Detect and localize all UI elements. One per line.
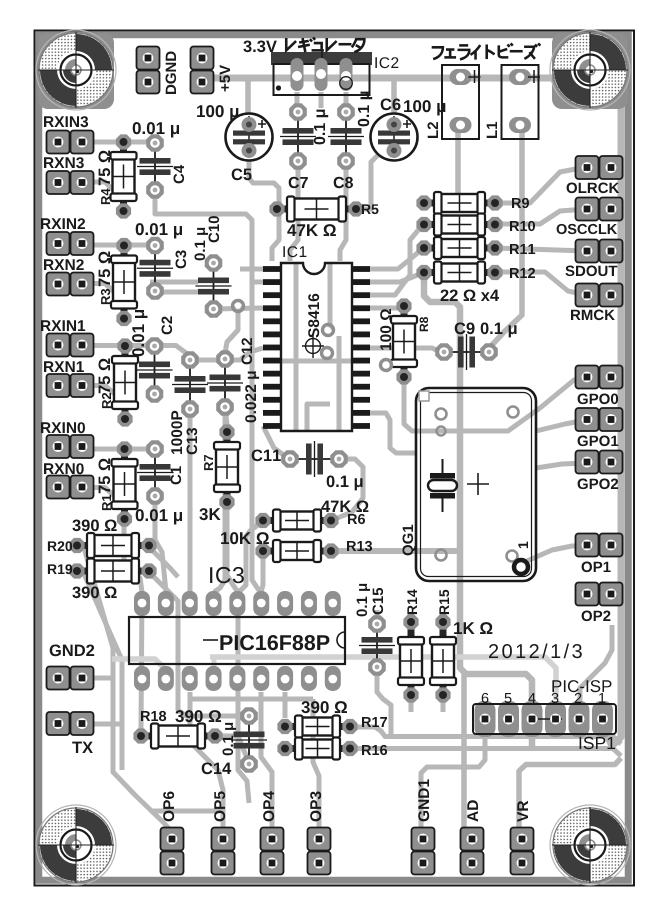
label QG1 [403, 525, 417, 556]
label C3 [176, 250, 187, 268]
label R7 [204, 455, 213, 470]
label L2 [428, 122, 439, 138]
wire R17 to right trunk [350, 727, 621, 744]
label C4 [174, 165, 185, 184]
label C13 [187, 428, 198, 454]
connector GPO1 [587, 419, 611, 421]
wire C12 down to IC3 [214, 407, 225, 592]
resistor R18 [141, 724, 215, 749]
label 0.1u C15 [357, 584, 371, 617]
wire via to C12 [225, 311, 238, 359]
resistor R12 [424, 262, 495, 284]
wire RXIN3 to C4 [88, 140, 153, 145]
wire through IC1 e [307, 404, 330, 431]
wire IC3 to R18 [141, 592, 142, 730]
wire under IC3 [190, 697, 313, 702]
connector RXIN3 [58, 141, 82, 143]
label RXN3 [44, 157, 84, 168]
wire IC1 to R10 [370, 225, 424, 295]
connector RXN3 [58, 182, 82, 184]
label R5 [362, 204, 379, 214]
resistor R3 [111, 246, 137, 319]
IC U IC1 CS8416 [263, 266, 370, 429]
connector TX [58, 723, 82, 725]
label regulator katakana [286, 38, 364, 53]
wire light to IC3 pad2 [112, 659, 166, 680]
wire TX join [94, 722, 122, 727]
wire RXN1 to R2 [88, 386, 125, 416]
via [381, 360, 392, 371]
label RXIN0 [41, 422, 85, 433]
capacitor C6 (electrolytic) [371, 114, 418, 161]
label C5 [232, 169, 252, 181]
label R16 [362, 745, 387, 755]
wire +5V rail to right edge trunk down to ISP1 pin1 [205, 78, 621, 746]
label 390 R20 [72, 520, 116, 532]
wire R12 to RMCK [495, 272, 586, 295]
wire RXIN1 to C2/C13 [88, 346, 190, 361]
capacitor C15 [359, 624, 395, 667]
capacitor C13 [172, 360, 208, 409]
wire C3 to C10 area [155, 290, 205, 295]
label 47K R6 [321, 501, 368, 513]
wire RXN0 to R1 [88, 488, 124, 516]
resistor R7 [214, 432, 240, 502]
wire IC1 to R12 [370, 273, 424, 282]
label 75ohm R1 [99, 459, 111, 494]
label 0.1u C14 [223, 723, 237, 756]
label R8 [420, 317, 429, 331]
capacitor C11 [290, 441, 339, 477]
wire C15 to R17 rail [377, 667, 391, 736]
connector VR [521, 839, 523, 863]
connector GND1 [422, 839, 424, 863]
label R2 [102, 393, 111, 408]
label RXN0 [44, 463, 84, 474]
label 75ohm R4 [99, 151, 111, 186]
wire IC1 to C9 [370, 348, 440, 352]
label OP3 [310, 792, 321, 822]
resistor R8 [391, 306, 417, 377]
IC U IC2 (3.3V regulator) [271, 42, 372, 95]
mounting hole top-right [550, 30, 630, 110]
capacitor C12 [207, 359, 243, 407]
label 0.1u C11 [327, 476, 363, 491]
connector OLRCK [587, 167, 611, 169]
label 0.1u C7 [314, 110, 328, 145]
label 390 R18 [175, 710, 221, 722]
label 100u C5 [197, 105, 238, 120]
connector OSCCLK [587, 208, 611, 210]
label L1 [487, 122, 497, 138]
label OP5 [214, 791, 225, 821]
wire rail to C5 plus [245, 78, 251, 113]
label R9 [512, 198, 529, 208]
label 10K [221, 532, 269, 544]
label R18 [141, 711, 166, 721]
wire long vertical to C14 tail [238, 596, 249, 803]
label R15 [439, 590, 449, 614]
capacitor C1 [137, 449, 173, 496]
label RXN1 [44, 361, 84, 372]
wire OP6-OP5 link [150, 809, 223, 814]
resistor R6 [263, 510, 331, 532]
label 2012/1/3 [489, 644, 582, 659]
connector RXIN2 [58, 243, 82, 245]
label RMCK [571, 310, 615, 321]
wire IC1 to R11 [370, 248, 424, 269]
label 75ohm R3 [99, 252, 111, 287]
wire QG1 pin1 to OP1 [527, 546, 586, 561]
wire IC2 pin2 stub [319, 92, 324, 108]
label ferrite beads katakana [432, 43, 541, 59]
label pin 1 [518, 542, 528, 549]
wire stub IC1 pin2 [252, 280, 263, 285]
capacitor C2 [137, 346, 173, 394]
label 0.1u C8 [358, 92, 372, 127]
connector RXIN1 [58, 344, 82, 346]
wire trunk branch to AD [461, 674, 467, 833]
label 47K R5 [287, 224, 336, 236]
wire C15 top stub [375, 610, 380, 624]
label RXN2 [44, 259, 84, 270]
label OP4 [263, 791, 274, 821]
wire C5 to R5 [249, 160, 279, 208]
wire R10 to OSCCLK [495, 209, 586, 224]
label pin 4 [528, 693, 535, 703]
wire through IC1 c [337, 336, 342, 431]
label C1 [171, 466, 182, 484]
label OP2 [582, 611, 611, 622]
capacitor C4 [137, 143, 173, 190]
label GPO0 [578, 394, 619, 405]
wire stub pad [212, 657, 217, 679]
resistor R14 [398, 622, 424, 695]
wire IC3 to OP5 [190, 692, 223, 827]
label IC3 [210, 567, 244, 583]
connector RXN2 [58, 283, 82, 285]
wire L1 down to C9 [489, 125, 522, 352]
connector RXN0 [58, 486, 82, 488]
wire C8 to IC1 [340, 161, 346, 261]
wire R16 to right trunk [350, 749, 621, 757]
wire C12 to R7 [225, 407, 227, 432]
label R20 [48, 541, 72, 551]
wire R9 to OLRCK [495, 167, 586, 203]
connector OP2 [587, 593, 611, 595]
label DGND [166, 52, 177, 95]
label 100u C6 [404, 100, 445, 115]
resistor R19 [77, 559, 149, 584]
mounting hole bottom-right [550, 805, 630, 885]
connector RXIN0 [58, 446, 82, 448]
resistor R11 [424, 237, 495, 259]
wire R19 diagonal down [84, 574, 122, 770]
wire RXN3 to R4 [88, 182, 124, 207]
label 1K [454, 622, 492, 634]
wire C7 to IC1 [290, 161, 298, 261]
wire R13 to QG1 trunk [331, 548, 460, 554]
label 0.01u C1 [136, 509, 182, 524]
wire GND2 join [94, 676, 113, 681]
wire R11 to SDOUT [495, 248, 586, 251]
connector DGND [147, 58, 149, 82]
wire IC2 pin3 to C8 [344, 92, 349, 111]
capacitor C9 [444, 334, 489, 370]
wire trunk R12-QG1-ISP4 [424, 273, 532, 748]
wire R14 bottom stub [409, 695, 414, 712]
wire R19 to C14 [149, 572, 243, 716]
resistor R16 [285, 738, 350, 760]
wire right trunk to VR [519, 758, 621, 830]
label TX [72, 742, 93, 753]
wire IC2 pin1 to C7 [295, 92, 300, 111]
wire through IC1 d [263, 359, 370, 364]
capacitor C3 [137, 246, 173, 292]
IC U IC3 PIC16F88P [134, 591, 341, 691]
via [323, 325, 334, 336]
label C2 [162, 316, 173, 334]
wire C1 down to IC3 [155, 496, 166, 592]
label RXIN1 [41, 320, 85, 331]
label R13 [347, 541, 372, 551]
connector RMCK [587, 294, 611, 296]
label 0.1u C10 [195, 228, 209, 261]
wire rail to C6 plus [391, 78, 397, 125]
wire to GPO1 [536, 420, 586, 431]
resistor R4 [111, 142, 137, 211]
wire R5 to IC1 [272, 215, 279, 261]
label ISP1 [580, 737, 616, 749]
label CS8416 [302, 334, 324, 358]
label RXIN3 [44, 116, 88, 127]
label C8 [334, 177, 353, 188]
label R1 [102, 495, 111, 510]
label VR [517, 801, 528, 822]
wire L2 to R9 [424, 125, 458, 203]
label +5V [220, 65, 230, 91]
label PIC-ISP [552, 680, 611, 692]
inductor L2 (ferrite bead) [442, 65, 481, 139]
wire R13 to IC3 [261, 551, 263, 592]
label OP6 [163, 792, 174, 822]
label 0.01u C4 [133, 122, 179, 137]
connector OP4 [271, 839, 273, 863]
via [322, 348, 333, 359]
wire IC3 to ISP pad3 [210, 657, 556, 700]
resistor R2 [112, 346, 138, 419]
connector OP3 [318, 839, 320, 863]
wire R14 stub [409, 612, 414, 622]
connector GND2 [58, 677, 82, 679]
label R10 [510, 221, 535, 231]
connector RXN1 [58, 385, 82, 387]
label IC1 [283, 246, 306, 257]
label pin 6 [482, 693, 489, 703]
inductor L1 (ferrite bead) [502, 65, 541, 139]
label GPO1 [578, 436, 619, 447]
label pin 1 [599, 693, 605, 703]
resistor R17 [285, 716, 350, 738]
wire C13 down to IC3 [188, 409, 193, 592]
label R4 [101, 189, 110, 205]
connector OP5 [222, 839, 224, 863]
wire ISP pad6 to GND1 [421, 733, 485, 827]
label OP1 [582, 562, 611, 573]
crystal oscillator QG1 [416, 388, 536, 581]
label C9 [455, 323, 475, 335]
resistor R5 [277, 197, 356, 222]
capacitor C14 [231, 716, 267, 764]
label R12 [510, 268, 535, 278]
wire ISP pad2 to OP2 [580, 625, 612, 705]
wire IC3 to OP4 [261, 692, 272, 827]
label 3.3V [243, 41, 276, 53]
wire R8 to QG1 to GPO0 [404, 377, 586, 431]
wire R18 to C14 [215, 736, 249, 763]
label C6 [381, 99, 401, 111]
capacitor C8 [328, 112, 364, 161]
label 1000P [171, 411, 182, 454]
label pin 5 [505, 693, 512, 703]
label PIC16F88P [220, 635, 329, 650]
connector +5V [201, 58, 203, 82]
label RXIN2 [41, 218, 85, 229]
connector ISP1 [475, 701, 614, 737]
connector SDOUT [587, 250, 611, 252]
wire R6 to IC3 [238, 521, 263, 592]
label 390 R19 [72, 587, 116, 599]
wire R1 down to IC3 [124, 519, 142, 592]
label AD [467, 800, 478, 821]
wire to GPO2 [536, 463, 586, 468]
mounting hole bottom-left [36, 805, 116, 885]
label 3K [199, 508, 220, 520]
label 75ohm R2 [99, 359, 111, 394]
resistor R9 [424, 192, 495, 214]
resistor R1 [112, 449, 138, 519]
capacitor C10 [196, 263, 232, 309]
label 390 R17/R16 [301, 701, 347, 713]
label GPO2 [578, 479, 619, 490]
wire C11 right to R6 [335, 459, 363, 519]
label 0.01u C3 [136, 223, 182, 238]
wire IC3 to R17 [283, 692, 288, 718]
wire through IC1 b [328, 263, 333, 330]
wire C4 trunk down to IC3 [155, 195, 261, 592]
connector OP1 [587, 544, 611, 546]
connector GPO0 [587, 376, 611, 378]
connector AD [471, 839, 473, 863]
label C12 [242, 338, 253, 364]
capacitor C7 [280, 112, 316, 161]
label C15 [373, 588, 384, 615]
mounting hole top-left [36, 30, 116, 110]
label SDOUT [565, 266, 617, 277]
label pin 3 [552, 693, 559, 703]
label C10 [209, 216, 220, 242]
label 0.022u C12 [245, 372, 259, 423]
label pin 2 [575, 693, 582, 703]
label R3 [101, 289, 110, 304]
resistor R15 [430, 622, 456, 695]
wire IC1 to R8 [370, 306, 404, 308]
label C11 [252, 450, 281, 462]
label C14 [202, 763, 232, 775]
wire C13/C12 to IC1 [190, 348, 263, 360]
wire RXIN0 to C1 [88, 447, 155, 452]
via [233, 301, 244, 312]
label R14 [407, 589, 417, 614]
wire C10 to IC1 pin [214, 308, 264, 309]
wire RXIN2 to C3 [88, 243, 154, 248]
label IC2 [375, 57, 398, 68]
label OLRCK [567, 183, 620, 194]
wire R7 down to IC3 [227, 502, 238, 592]
wire through IC1 a [294, 263, 299, 431]
label 0.1u C9 [481, 323, 517, 338]
wire IC1 to C11 left [263, 426, 288, 458]
label GND2 [50, 645, 94, 657]
label 100ohm R8 [380, 309, 391, 350]
label 0.01u C2 [132, 310, 147, 356]
label R11 [510, 244, 535, 254]
label R19 [48, 564, 72, 574]
wire into C10 area [150, 280, 198, 285]
wire R20 right diagonal [149, 547, 178, 577]
connector OP6 [171, 839, 173, 863]
wire IC3 to OP3 [313, 699, 319, 827]
wire R15 bottom stub [441, 695, 446, 712]
resistor R10 [424, 214, 495, 236]
wire R5 to C6 [356, 152, 387, 209]
wire R15 stub [441, 612, 446, 622]
label R6 [348, 514, 365, 524]
wire R20 diagonal to OP6 [84, 548, 172, 832]
wire stub IC1 pin1 [240, 267, 263, 272]
label C7 [289, 177, 308, 188]
wire RXN2 to R3 [88, 284, 124, 315]
resistor R20 [77, 533, 149, 558]
capacitor C5 (electrolytic) [226, 114, 273, 161]
connector GPO2 [587, 461, 611, 463]
wire IC1 pin to QG1 edge [370, 413, 417, 453]
label GND1 [418, 779, 429, 821]
label R17 [362, 717, 387, 727]
resistor R13 [263, 540, 331, 562]
label 22ohm x4 [441, 290, 499, 302]
label OSCCLK [557, 224, 618, 234]
